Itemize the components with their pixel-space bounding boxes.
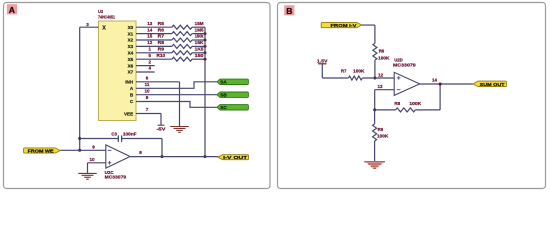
svg-text:SB: SB — [220, 92, 227, 97]
svg-text:R6: R6 — [379, 48, 385, 53]
svg-text:R8: R8 — [394, 101, 400, 106]
svg-text:150: 150 — [195, 53, 205, 58]
svg-text:12: 12 — [378, 72, 384, 77]
svg-text:-5V: -5V — [157, 127, 166, 132]
svg-text:U3: U3 — [98, 9, 103, 15]
svg-text:VEE: VEE — [124, 111, 133, 116]
svg-text:15M: 15M — [195, 21, 204, 26]
svg-text:14: 14 — [147, 27, 153, 32]
svg-text:100K: 100K — [409, 101, 422, 106]
svg-text:12: 12 — [147, 40, 153, 45]
svg-text:X5: X5 — [128, 57, 134, 62]
svg-text:MC33079: MC33079 — [393, 63, 416, 69]
svg-text:R7: R7 — [158, 34, 165, 39]
svg-text:10: 10 — [89, 157, 95, 162]
svg-text:R6: R6 — [158, 27, 165, 32]
svg-text:13: 13 — [377, 84, 383, 89]
svg-text:U2D: U2D — [394, 57, 403, 63]
svg-text:150k: 150k — [195, 34, 204, 39]
svg-text:FROM I-V: FROM I-V — [331, 23, 357, 28]
svg-text:R5: R5 — [158, 21, 165, 26]
svg-text:X0: X0 — [128, 25, 134, 30]
svg-text:MC33079: MC33079 — [105, 175, 127, 181]
svg-text:X3: X3 — [128, 44, 134, 49]
svg-text:100K: 100K — [377, 133, 389, 138]
svg-text:X: X — [102, 26, 106, 32]
svg-text:R7: R7 — [341, 69, 347, 74]
svg-text:15K: 15K — [195, 40, 205, 45]
svg-text:I-V OUT: I-V OUT — [223, 155, 248, 160]
svg-text:X7: X7 — [128, 70, 134, 75]
svg-text:SA: SA — [220, 80, 227, 85]
svg-text:X4: X4 — [128, 51, 134, 56]
svg-text:100K: 100K — [353, 69, 365, 74]
svg-text:1K5: 1K5 — [195, 47, 204, 52]
svg-text:X1: X1 — [128, 31, 134, 36]
svg-text:R9: R9 — [378, 127, 384, 132]
svg-text:X2: X2 — [128, 38, 134, 43]
svg-text:11: 11 — [145, 82, 150, 87]
svg-text:R10: R10 — [157, 53, 166, 58]
svg-text:13: 13 — [147, 21, 153, 26]
svg-text:10: 10 — [144, 88, 150, 93]
svg-text:R8: R8 — [158, 40, 165, 45]
svg-text:FROM WE: FROM WE — [28, 148, 54, 153]
svg-text:X6: X6 — [128, 63, 134, 68]
svg-text:R9: R9 — [158, 47, 165, 52]
svg-text:100nF: 100nF — [123, 132, 137, 137]
svg-text:14: 14 — [432, 77, 438, 82]
svg-text:1M5: 1M5 — [195, 27, 204, 32]
svg-text:A: A — [9, 5, 15, 15]
svg-text:B: B — [286, 6, 292, 16]
svg-text:INH: INH — [125, 80, 134, 85]
svg-text:SUM OUT: SUM OUT — [480, 82, 506, 87]
svg-text:100K: 100K — [378, 55, 390, 60]
svg-text:74HC4051: 74HC4051 — [98, 14, 115, 20]
svg-text:C3: C3 — [111, 132, 117, 137]
svg-text:15: 15 — [147, 34, 153, 39]
svg-text:SC: SC — [220, 105, 227, 110]
